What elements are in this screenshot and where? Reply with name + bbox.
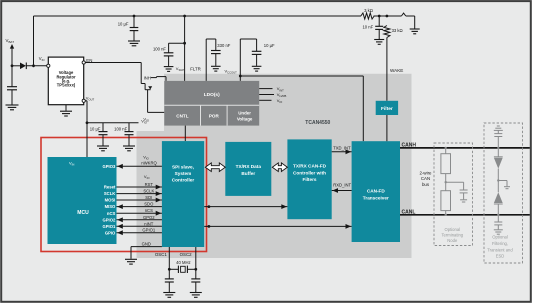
svg-text:10 µF: 10 µF (90, 127, 101, 132)
svg-text:100 nF: 100 nF (114, 127, 127, 132)
svg-text:TX/RX Data: TX/RX Data (236, 164, 262, 169)
svg-text:Filter: Filter (381, 106, 393, 112)
svg-text:330 nF: 330 nF (217, 43, 230, 48)
svg-text:33 kΩ: 33 kΩ (392, 28, 403, 33)
svg-text:GPIO2: GPIO2 (102, 217, 115, 222)
svg-text:nINT: nINT (144, 221, 154, 226)
svg-text:Optional: Optional (444, 227, 460, 232)
svg-text:3 kΩ: 3 kΩ (364, 8, 373, 13)
svg-text:SDI: SDI (145, 195, 152, 200)
svg-text:FLTR: FLTR (190, 67, 201, 72)
svg-text:nCS: nCS (107, 211, 116, 216)
svg-text:SPI slave,: SPI slave, (172, 164, 194, 169)
svg-text:GPIO1: GPIO1 (142, 228, 155, 233)
svg-text:Buffer: Buffer (241, 171, 255, 176)
svg-text:Filtering,: Filtering, (492, 241, 508, 246)
svg-text:nWKRQ: nWKRQ (141, 160, 157, 165)
svg-text:GPIO1: GPIO1 (102, 224, 115, 229)
svg-text:GND: GND (142, 241, 151, 246)
svg-text:2-wire: 2-wire (420, 171, 433, 176)
svg-text:bus: bus (422, 182, 430, 187)
svg-text:Controller: Controller (172, 177, 195, 182)
svg-text:100 nF: 100 nF (153, 47, 166, 52)
svg-text:MISO: MISO (105, 204, 116, 209)
svg-text:TCAN4550: TCAN4550 (305, 120, 330, 126)
svg-text:MOSI: MOSI (105, 198, 116, 203)
svg-text:Under: Under (238, 110, 251, 115)
svg-text:OSC1: OSC1 (155, 252, 168, 257)
svg-text:Node: Node (447, 238, 458, 243)
svg-text:GPO2: GPO2 (143, 215, 155, 220)
svg-text:POR: POR (209, 114, 220, 119)
svg-text:OSC2: OSC2 (180, 252, 193, 257)
svg-text:Optional: Optional (492, 235, 508, 240)
svg-text:CNTL: CNTL (176, 114, 188, 119)
svg-text:MCU: MCU (77, 210, 89, 216)
svg-text:LDO(s): LDO(s) (204, 92, 220, 98)
svg-text:CAN: CAN (421, 176, 430, 181)
svg-text:CAN-FD: CAN-FD (367, 189, 386, 194)
svg-text:RXD_INT: RXD_INT (333, 182, 351, 187)
svg-text:GPIO: GPIO (105, 230, 116, 235)
svg-text:TPSxxxx): TPSxxxx) (57, 83, 76, 88)
svg-text:System: System (175, 171, 192, 176)
svg-text:10 nF: 10 nF (362, 25, 373, 30)
svg-text:TX/RX CAN-FD: TX/RX CAN-FD (293, 164, 327, 169)
svg-text:Controller with: Controller with (293, 170, 326, 175)
svg-text:ESD: ESD (496, 254, 505, 259)
svg-text:WAKE: WAKE (390, 68, 403, 73)
svg-text:nCS: nCS (145, 208, 153, 213)
svg-text:40 MHz: 40 MHz (176, 260, 190, 265)
svg-text:GPIO3: GPIO3 (102, 164, 115, 169)
svg-text:SDO: SDO (144, 202, 154, 207)
svg-text:Terminating: Terminating (441, 233, 463, 238)
svg-text:Transceiver: Transceiver (363, 195, 389, 200)
svg-text:10 µF: 10 µF (264, 43, 275, 48)
svg-text:Filters: Filters (302, 177, 316, 182)
svg-text:SCLK: SCLK (104, 191, 115, 196)
svg-text:INH: INH (144, 75, 151, 80)
svg-text:TXD_INT: TXD_INT (333, 146, 351, 151)
svg-text:Transient and: Transient and (487, 247, 513, 252)
svg-text:SCLK: SCLK (143, 189, 154, 194)
svg-text:RST: RST (145, 182, 154, 187)
svg-text:Voltage: Voltage (237, 116, 253, 121)
svg-text:Reset: Reset (104, 185, 116, 190)
svg-text:10 µF: 10 µF (118, 21, 129, 26)
